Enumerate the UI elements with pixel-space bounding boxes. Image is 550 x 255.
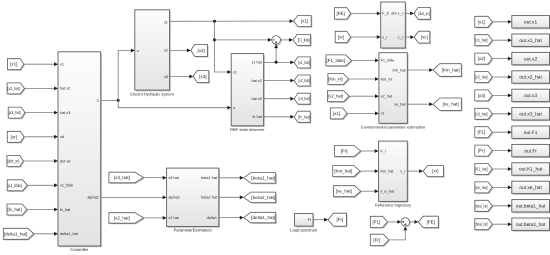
from tag [delta1_hat]: [3, 228, 35, 240]
goto tag [Km_hat]: [433, 64, 462, 78]
wire x1 to out block: [492, 21, 508, 23]
wire FE from sum: [410, 221, 415, 223]
svg-text:out.xe_hat: out.xe_hat: [519, 185, 542, 191]
arrowhead into Controller port 1: [54, 62, 58, 66]
svg-text:[beta2_hat]: [beta2_hat]: [251, 195, 275, 200]
svg-text:u: u: [137, 49, 139, 53]
wire beta2_hat to out block: [492, 223, 508, 225]
svg-text:[x1]: [x1]: [301, 19, 308, 24]
from tag [Km_ini]: [328, 74, 350, 86]
wire [delta1_hat] to Controller: [34, 233, 54, 235]
goto tag [dot_xc]: [414, 8, 431, 21]
svg-text:[x3_hat]: [x3_hat]: [114, 175, 130, 180]
wire alpha2 Controller to ParameterEstimation: [101, 196, 163, 198]
junction u node: [117, 99, 120, 102]
from tag [x1] env: [330, 108, 348, 120]
svg-text:[fv_hat]: [fv_hat]: [298, 114, 309, 119]
subsystem Electro-hydraulic system: [130, 10, 174, 97]
subsystem environment dynamics: [381, 2, 407, 49]
outport block out.Fr: [512, 144, 550, 158]
arrowhead u into RBF state observer: [227, 106, 231, 110]
svg-text:[x2_hat]: [x2_hat]: [114, 215, 130, 220]
arrowhead into out.xe_hat: [508, 186, 512, 190]
svg-text:x1_tilde: x1_tilde: [60, 184, 73, 188]
svg-text:dot x_c: dot x_c: [391, 12, 403, 16]
svg-text:alpha2: alpha2: [87, 196, 98, 200]
junction x1_hat node: [275, 61, 278, 64]
outport block out.x3_hat: [512, 108, 550, 122]
goto tag [xc]: [414, 31, 431, 44]
svg-text:Reference trajectory: Reference trajectory: [375, 203, 411, 208]
arrowhead xr into environment block: [377, 35, 381, 39]
from tag [x1]: [7, 59, 25, 71]
from tag [dot_xr]: [7, 156, 25, 168]
svg-text:[xe_hat]: [xe_hat]: [443, 102, 459, 107]
arrowhead x1 into RBF state observer: [227, 70, 231, 74]
wire x2_hat to out block: [492, 76, 508, 78]
arrowhead x1_hat into sum bottom: [274, 44, 278, 48]
arrowhead x3 into goto [x3]: [189, 75, 193, 79]
svg-text:xd: xd: [60, 135, 64, 139]
wire [x3_hat] to Controller: [25, 112, 54, 114]
outport block out.x1_hat: [512, 34, 550, 48]
svg-text:F_r: F_r: [380, 149, 386, 153]
svg-text:out.beta2_hat: out.beta2_hat: [516, 222, 546, 228]
wire x3 to out block: [492, 94, 508, 96]
svg-text:F_E: F_E: [382, 12, 389, 16]
from tag [beta1_hat] out: [475, 200, 494, 212]
wire Fr from Load spectrum: [313, 219, 324, 221]
subsystem Environmental parameter estimation: [361, 53, 425, 130]
wire [xe_hat] to Reference trajectory: [361, 190, 375, 192]
arrowhead [Fr] into Reference trajectory: [375, 149, 379, 153]
svg-text:[delta1_hat]: [delta1_hat]: [4, 231, 28, 236]
svg-text:alpha2: alpha2: [168, 196, 179, 200]
from tag [x1_tilde]: [7, 180, 28, 192]
arrowhead [xe_hat] into Reference trajectory: [375, 189, 379, 193]
svg-text:[x3]: [x3]: [199, 74, 206, 79]
wire [fv_hat] to Controller: [27, 209, 54, 211]
svg-text:[x2]: [x2]: [197, 48, 204, 53]
svg-text:[x2_hat]: [x2_hat]: [475, 75, 487, 80]
source Load spectrum: [290, 214, 318, 233]
Electro-hydraulic system port labels: [137, 20, 168, 79]
svg-text:[delta1_hat]: [delta1_hat]: [251, 215, 275, 220]
from tag [F1] out: [475, 127, 494, 139]
goto tag [x2]: [191, 44, 209, 57]
svg-text:[FE]: [FE]: [336, 11, 344, 16]
svg-text:[xe_hat]: [xe_hat]: [336, 189, 352, 194]
arrowhead into out.K1_hat: [508, 167, 512, 171]
from tag [FE]: [334, 8, 351, 21]
goto tag [x1]: [294, 16, 313, 28]
outport block out.beta2_hat: [512, 218, 550, 232]
svg-text:[xr]: [xr]: [432, 169, 438, 174]
wire [x2_hat] to env estimation: [349, 95, 375, 97]
svg-text:dot xd: dot xd: [60, 159, 70, 163]
svg-text:x_r: x_r: [382, 35, 388, 39]
ParameterEstimation port labels: [168, 176, 218, 220]
environment block port labels: [382, 12, 403, 40]
svg-text:out.F1: out.F1: [524, 130, 538, 136]
wire x_r out: [407, 170, 419, 172]
junction x1 to sum: [213, 38, 216, 41]
svg-text:[F1_tilde]: [F1_tilde]: [298, 37, 310, 42]
wire [delta1_hat] from ParameterEstimation: [219, 217, 240, 219]
arrowhead [x1] into env estimation: [375, 112, 379, 116]
arrowhead into goto [xe_hat]: [429, 102, 433, 106]
arrowhead into goto [x1_hat]: [290, 61, 294, 65]
goto tag [x3]: [193, 71, 210, 84]
from tag [xr]: [7, 131, 25, 143]
wire x3 to goto: [170, 76, 190, 78]
outport block out.xe_hat: [512, 181, 550, 195]
svg-text:[fv_hat]: [fv_hat]: [8, 207, 22, 212]
svg-text:out.x2: out.x2: [524, 56, 537, 62]
wire [x1_tilde] to Controller: [27, 184, 54, 186]
svg-text:[x2_hat]: [x2_hat]: [328, 94, 343, 99]
svg-text:Km_hat: Km_hat: [393, 68, 407, 72]
svg-text:hat x3: hat x3: [251, 97, 261, 101]
wire u down to RBF state observer: [118, 100, 227, 107]
arrowhead x3_hat into ParameterEstimation: [163, 176, 167, 180]
from tag [F1] sum: [370, 216, 388, 228]
sum block FE: [401, 218, 410, 227]
wire x1 to sum: [215, 39, 269, 41]
arrowhead into Controller port 5: [54, 159, 58, 163]
from tag [x3_hat]: [8, 107, 26, 119]
arrowhead into Controller port 4: [54, 135, 58, 139]
svg-text:x_e_hat: x_e_hat: [380, 190, 394, 194]
outport block out.F1: [512, 126, 550, 140]
wire [xr] to Controller: [24, 136, 54, 138]
wire xr top: [351, 36, 377, 38]
svg-text:[Fr]: [Fr]: [337, 217, 344, 222]
svg-text:hat x2: hat x2: [251, 79, 261, 83]
arrowhead into goto [beta2_hat]: [240, 195, 244, 199]
arrowhead into goto [FE]: [415, 220, 419, 224]
wire [F1_tilde] to env estimation: [352, 59, 376, 61]
svg-text:x3: x3: [164, 75, 168, 79]
svg-text:[F1]: [F1]: [373, 219, 381, 224]
arrowhead into Controller port 7: [54, 208, 58, 212]
goto tag [FE]: [418, 216, 439, 229]
arrowhead into out.F1: [508, 130, 512, 134]
wire observer [x2_hat]: [264, 80, 291, 82]
wire x2_hat to PE: [144, 217, 163, 219]
wire observer [x3_hat]: [264, 98, 291, 100]
svg-text:x2: x2: [164, 49, 168, 53]
Load spectrum port label: [308, 218, 312, 222]
svg-text:out.x1_hat: out.x1_hat: [519, 38, 542, 44]
svg-text:[xr]: [xr]: [11, 134, 17, 139]
arrowhead [x2_hat] into env estimation: [375, 94, 379, 98]
arrowhead x1 into sum: [268, 38, 272, 42]
svg-text:[Km_hat]: [Km_hat]: [442, 68, 460, 73]
from tag [xr] top: [335, 31, 352, 44]
svg-text:Load spectrum: Load spectrum: [290, 227, 318, 232]
svg-text:[Km_ini]: [Km_ini]: [328, 77, 342, 82]
from tag [beta2_hat] out: [475, 219, 494, 231]
svg-text:xe_hat: xe_hat: [394, 103, 406, 107]
svg-text:[Fr]: [Fr]: [478, 148, 485, 153]
svg-text:hat x3: hat x3: [60, 111, 70, 115]
svg-text:out.x2_hat: out.x2_hat: [519, 75, 542, 81]
wire x3_hat to PE: [144, 177, 164, 179]
wire x1 from Electro-hydraulic system: [170, 20, 290, 22]
from tag [x3] out: [475, 90, 494, 102]
goto tag [x1_hat]: [294, 57, 311, 69]
subsystem RBF state observer: [230, 54, 265, 132]
svg-text:[dot_xr]: [dot_xr]: [7, 159, 19, 164]
from tag [fv_hat]: [7, 204, 28, 216]
svg-text:delta1_hat: delta1_hat: [60, 232, 79, 236]
outport block out.beta1_hat: [512, 200, 550, 214]
svg-text:fv hat: fv hat: [253, 115, 263, 119]
svg-text:Km_ini: Km_ini: [381, 77, 393, 81]
svg-text:[x3_hat]: [x3_hat]: [9, 110, 21, 115]
wire xe_hat out: [407, 103, 429, 105]
goto tag [beta2_hat]: [244, 192, 277, 204]
arrowhead into goto [delta1_hat]: [240, 216, 244, 220]
arrowhead into out.x2: [508, 57, 512, 61]
from tag [x1] out: [475, 16, 494, 28]
from tag [x2_hat] out: [475, 72, 494, 84]
svg-text:out.x3: out.x3: [524, 93, 537, 99]
wire x3_hat to out block: [492, 113, 508, 115]
arrowhead into goto [Fr]: [324, 218, 328, 222]
sum block x1 error: [272, 36, 282, 46]
svg-text:out.beta1_hat: out.beta1_hat: [516, 204, 546, 210]
subsystem Reference trajectory: [375, 141, 411, 208]
svg-text:u: u: [97, 99, 99, 103]
wire Km_hat out: [407, 69, 429, 71]
outport block out.x1: [512, 16, 550, 30]
wire x1_hat up to sum: [275, 48, 277, 62]
arrowhead into out.Fr: [508, 149, 512, 153]
svg-text:[F1_tilde]: [F1_tilde]: [326, 58, 345, 63]
svg-text:ParameterEstimation: ParameterEstimation: [174, 228, 213, 233]
svg-text:out.K1_hat: out.K1_hat: [519, 167, 543, 173]
from tag [K1_hat] out: [475, 164, 494, 176]
wire x2 to out block: [492, 58, 508, 60]
svg-text:x1: x1: [60, 63, 64, 67]
svg-text:x_c: x_c: [398, 35, 404, 39]
arrowhead into out.x3_hat: [508, 112, 512, 116]
from tag [xe_hat] out: [475, 182, 494, 194]
arrowhead into out.beta2_hat: [508, 222, 512, 226]
Controller port labels: [60, 63, 99, 237]
arrowhead into out.beta1_hat: [508, 204, 512, 208]
arrowhead into goto [F1_tilde]: [289, 38, 293, 42]
svg-text:[x3_hat]: [x3_hat]: [298, 96, 309, 101]
Reference trajectory port labels: [380, 149, 406, 193]
svg-text:Km_hat: Km_hat: [380, 169, 394, 173]
from tag [x2_hat]: [7, 83, 26, 95]
svg-text:x2 hat: x2 hat: [168, 216, 179, 220]
goto tag [x3_hat]: [294, 93, 311, 105]
svg-text:RBF state observer: RBF state observer: [230, 127, 265, 132]
wire F1 to sum: [387, 221, 397, 223]
svg-text:out.x3_hat: out.x3_hat: [519, 112, 542, 118]
arrowhead into goto [xr]: [419, 169, 423, 173]
from tag [x1_hat] out: [475, 35, 494, 47]
arrowhead into goto [xc]: [410, 35, 414, 39]
arrowhead into Controller port 2: [54, 87, 58, 91]
svg-text:[F1]: [F1]: [478, 130, 486, 135]
svg-text:[x3]: [x3]: [478, 93, 485, 98]
svg-text:[x1_tilde]: [x1_tilde]: [8, 183, 22, 188]
wire xc: [405, 36, 410, 38]
svg-text:[xc]: [xc]: [421, 35, 428, 40]
svg-text:Electro-hydraulic system: Electro-hydraulic system: [130, 91, 174, 96]
wire [beta2_hat] from ParameterEstimation: [219, 196, 240, 198]
svg-text:Environmental parameter estima: Environmental parameter estimation: [361, 125, 425, 130]
wire dot_xc: [405, 12, 410, 14]
from tag [x3_hat] PE: [109, 172, 145, 184]
env estimation port labels: [381, 59, 407, 116]
wire [x1] to env estimation: [347, 112, 375, 114]
arrowhead [F1_tilde] into env estimation: [375, 59, 379, 63]
wire u up to Electro-hydraulic system: [118, 51, 131, 101]
arrowhead into goto [x2_hat]: [290, 79, 294, 83]
svg-text:out.x1: out.x1: [524, 20, 537, 26]
wire [Km_hat] to Reference trajectory: [360, 170, 375, 172]
from tag [x2] out: [475, 53, 494, 65]
from tag [x2_hat] PE: [109, 213, 145, 225]
svg-text:out.Fr: out.Fr: [524, 148, 537, 154]
svg-text:[x2_hat]: [x2_hat]: [8, 86, 20, 91]
wire K1_hat to out block: [492, 168, 508, 170]
arrowhead FE into environment block: [377, 12, 381, 16]
arrowhead into out.x1_hat: [508, 38, 512, 42]
wire F1 to out block: [492, 131, 508, 133]
wire [Km_ini] to env estimation: [349, 78, 376, 80]
from tag [x2_hat] env: [328, 91, 351, 103]
arrowhead into goto [dot_xc]: [410, 12, 414, 16]
svg-text:[xe_hat]: [xe_hat]: [475, 185, 487, 190]
svg-text:beta2 hat: beta2 hat: [201, 196, 218, 200]
wire observer [fv_hat]: [264, 116, 291, 118]
svg-text:[dot_xc]: [dot_xc]: [418, 11, 429, 16]
subsystem Controller: [58, 52, 102, 252]
arrowhead into Controller port 3: [54, 111, 58, 115]
wire [dot_xr] to Controller: [23, 160, 54, 162]
wire sum to goto F1_tilde: [280, 39, 289, 41]
arrowhead into goto [Km_hat]: [429, 68, 433, 72]
arrowhead into Controller port 8: [54, 232, 58, 236]
svg-text:u: u: [233, 106, 235, 110]
svg-text:fv_hat: fv_hat: [60, 208, 71, 212]
goto tag [Fr]: [328, 213, 348, 227]
arrowhead into goto [beta1_hat]: [240, 176, 244, 180]
goto tag [delta1_hat]: [244, 212, 277, 224]
svg-text:delta1: delta1: [207, 216, 217, 220]
from tag [Km_hat] ref: [333, 166, 362, 178]
arrowhead into out.x1: [508, 20, 512, 24]
outport block out.x2_hat: [512, 71, 550, 85]
goto tag [x2_hat]: [294, 75, 311, 87]
wire x1_hat to out block: [492, 39, 508, 41]
from tag [Fr] sum: [370, 234, 390, 247]
arrowhead [Km_hat] into Reference trajectory: [375, 169, 379, 173]
wire [Fr] to Reference trajectory: [361, 150, 375, 152]
from tag [xe_hat] ref: [333, 186, 361, 198]
svg-text:F1_tilde: F1_tilde: [381, 59, 395, 63]
wire beta1_hat to out block: [492, 205, 508, 207]
svg-text:[x1]: [x1]: [333, 111, 340, 116]
arrowhead F1 into sum: [397, 220, 401, 224]
svg-text:[beta2_hat]: [beta2_hat]: [475, 222, 487, 227]
svg-text:[FE]: [FE]: [427, 219, 435, 224]
svg-text:x2_hat: x2_hat: [381, 95, 393, 99]
arrowhead into out.x3: [508, 94, 512, 98]
from tag [x3_hat] out: [475, 108, 494, 120]
goto tag [xe_hat]: [433, 98, 462, 112]
outport block out.K1_hat: [512, 163, 550, 177]
svg-text:[x1]: [x1]: [10, 62, 17, 67]
arrowhead x2_hat into ParameterEstimation: [163, 216, 167, 220]
svg-text:x_r: x_r: [400, 169, 406, 173]
subsystem ParameterEstimation: [167, 168, 220, 233]
wire Fr to sum: [389, 230, 405, 240]
goto tag [F1_tilde]: [293, 34, 312, 46]
wire x1 branch down: [215, 21, 228, 72]
svg-text:[x1_hat]: [x1_hat]: [298, 60, 309, 65]
svg-text:Controller: Controller: [70, 247, 88, 252]
outport block out.x2: [512, 52, 550, 66]
arrowhead [Km_ini] into env estimation: [375, 77, 379, 81]
wire [x1] to Controller: [24, 63, 54, 65]
from tag [Fr] out: [475, 145, 494, 157]
wire u from Controller: [101, 99, 119, 101]
goto tag [beta1_hat]: [244, 173, 277, 185]
svg-text:[K1_hat]: [K1_hat]: [475, 167, 487, 172]
svg-text:x1: x1: [164, 20, 168, 24]
svg-text:x3 hat: x3 hat: [168, 176, 179, 180]
svg-text:[beta1_hat]: [beta1_hat]: [251, 175, 275, 180]
svg-text:x1: x1: [381, 112, 385, 116]
wire Fr to out block: [492, 150, 508, 152]
arrowhead u into Electro-hydraulic system: [131, 49, 135, 53]
svg-text:[Fr]: [Fr]: [373, 237, 380, 242]
wire [beta1_hat] from ParameterEstimation: [219, 177, 240, 179]
svg-text:[Fr]: [Fr]: [341, 149, 348, 154]
outport block out.x3: [512, 89, 550, 103]
svg-text:[xr]: [xr]: [338, 35, 344, 40]
svg-text:x1: x1: [233, 70, 237, 74]
svg-text:[Km_hat]: [Km_hat]: [334, 169, 352, 174]
junction x1 node: [213, 20, 216, 23]
goto tag [xr]: [423, 166, 444, 178]
arrowhead into Controller port 6: [54, 183, 58, 187]
svg-text:[beta1_hat]: [beta1_hat]: [475, 203, 487, 208]
wire FE: [351, 12, 377, 14]
svg-text:x1 hat: x1 hat: [251, 61, 262, 65]
RBF state observer port labels: [233, 61, 263, 119]
wire x2 to goto: [170, 49, 187, 51]
arrowhead x1 into goto [x1]: [290, 19, 294, 23]
svg-text:[x1_hat]: [x1_hat]: [475, 38, 487, 43]
svg-text:[x1]: [x1]: [478, 19, 485, 24]
wire observer [x1_hat]: [264, 61, 291, 63]
svg-text:[x3_hat]: [x3_hat]: [475, 111, 487, 116]
arrowhead into goto [x3_hat]: [290, 97, 294, 101]
arrowhead into out.x2_hat: [508, 75, 512, 79]
svg-text:[x2_hat]: [x2_hat]: [298, 78, 309, 83]
from tag [Fr] ref: [335, 146, 362, 158]
wire [x2_hat] to Controller: [25, 87, 55, 89]
